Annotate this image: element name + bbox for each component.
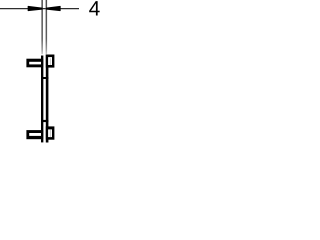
- part: bottom arm inner: [29, 133, 41, 136]
- part: top joint line: [41, 77, 48, 79]
- part: top tab inner: [48, 57, 52, 65]
- part: top tab outer: [46, 55, 55, 68]
- arrow right: [46, 6, 60, 10]
- dimension text 4: [89, 1, 99, 15]
- part: bottom joint line: [41, 120, 48, 122]
- part: bottom arm outer: [26, 130, 43, 139]
- part: top tab slot line: [49, 58, 52, 65]
- part: plate left line: [41, 56, 43, 143]
- arrow left: [28, 6, 42, 10]
- part: top arm outer: [26, 59, 43, 68]
- extension line left: [41, 0, 43, 54]
- part: bottom tab inner: [48, 129, 52, 137]
- part: bottom tab outer: [46, 126, 55, 139]
- extension line right: [46, 0, 48, 54]
- part: bottom tab slot line: [49, 130, 52, 137]
- part: top arm inner: [29, 62, 41, 65]
- dimension line: [0, 8, 79, 10]
- part: plate right line: [46, 55, 49, 143]
